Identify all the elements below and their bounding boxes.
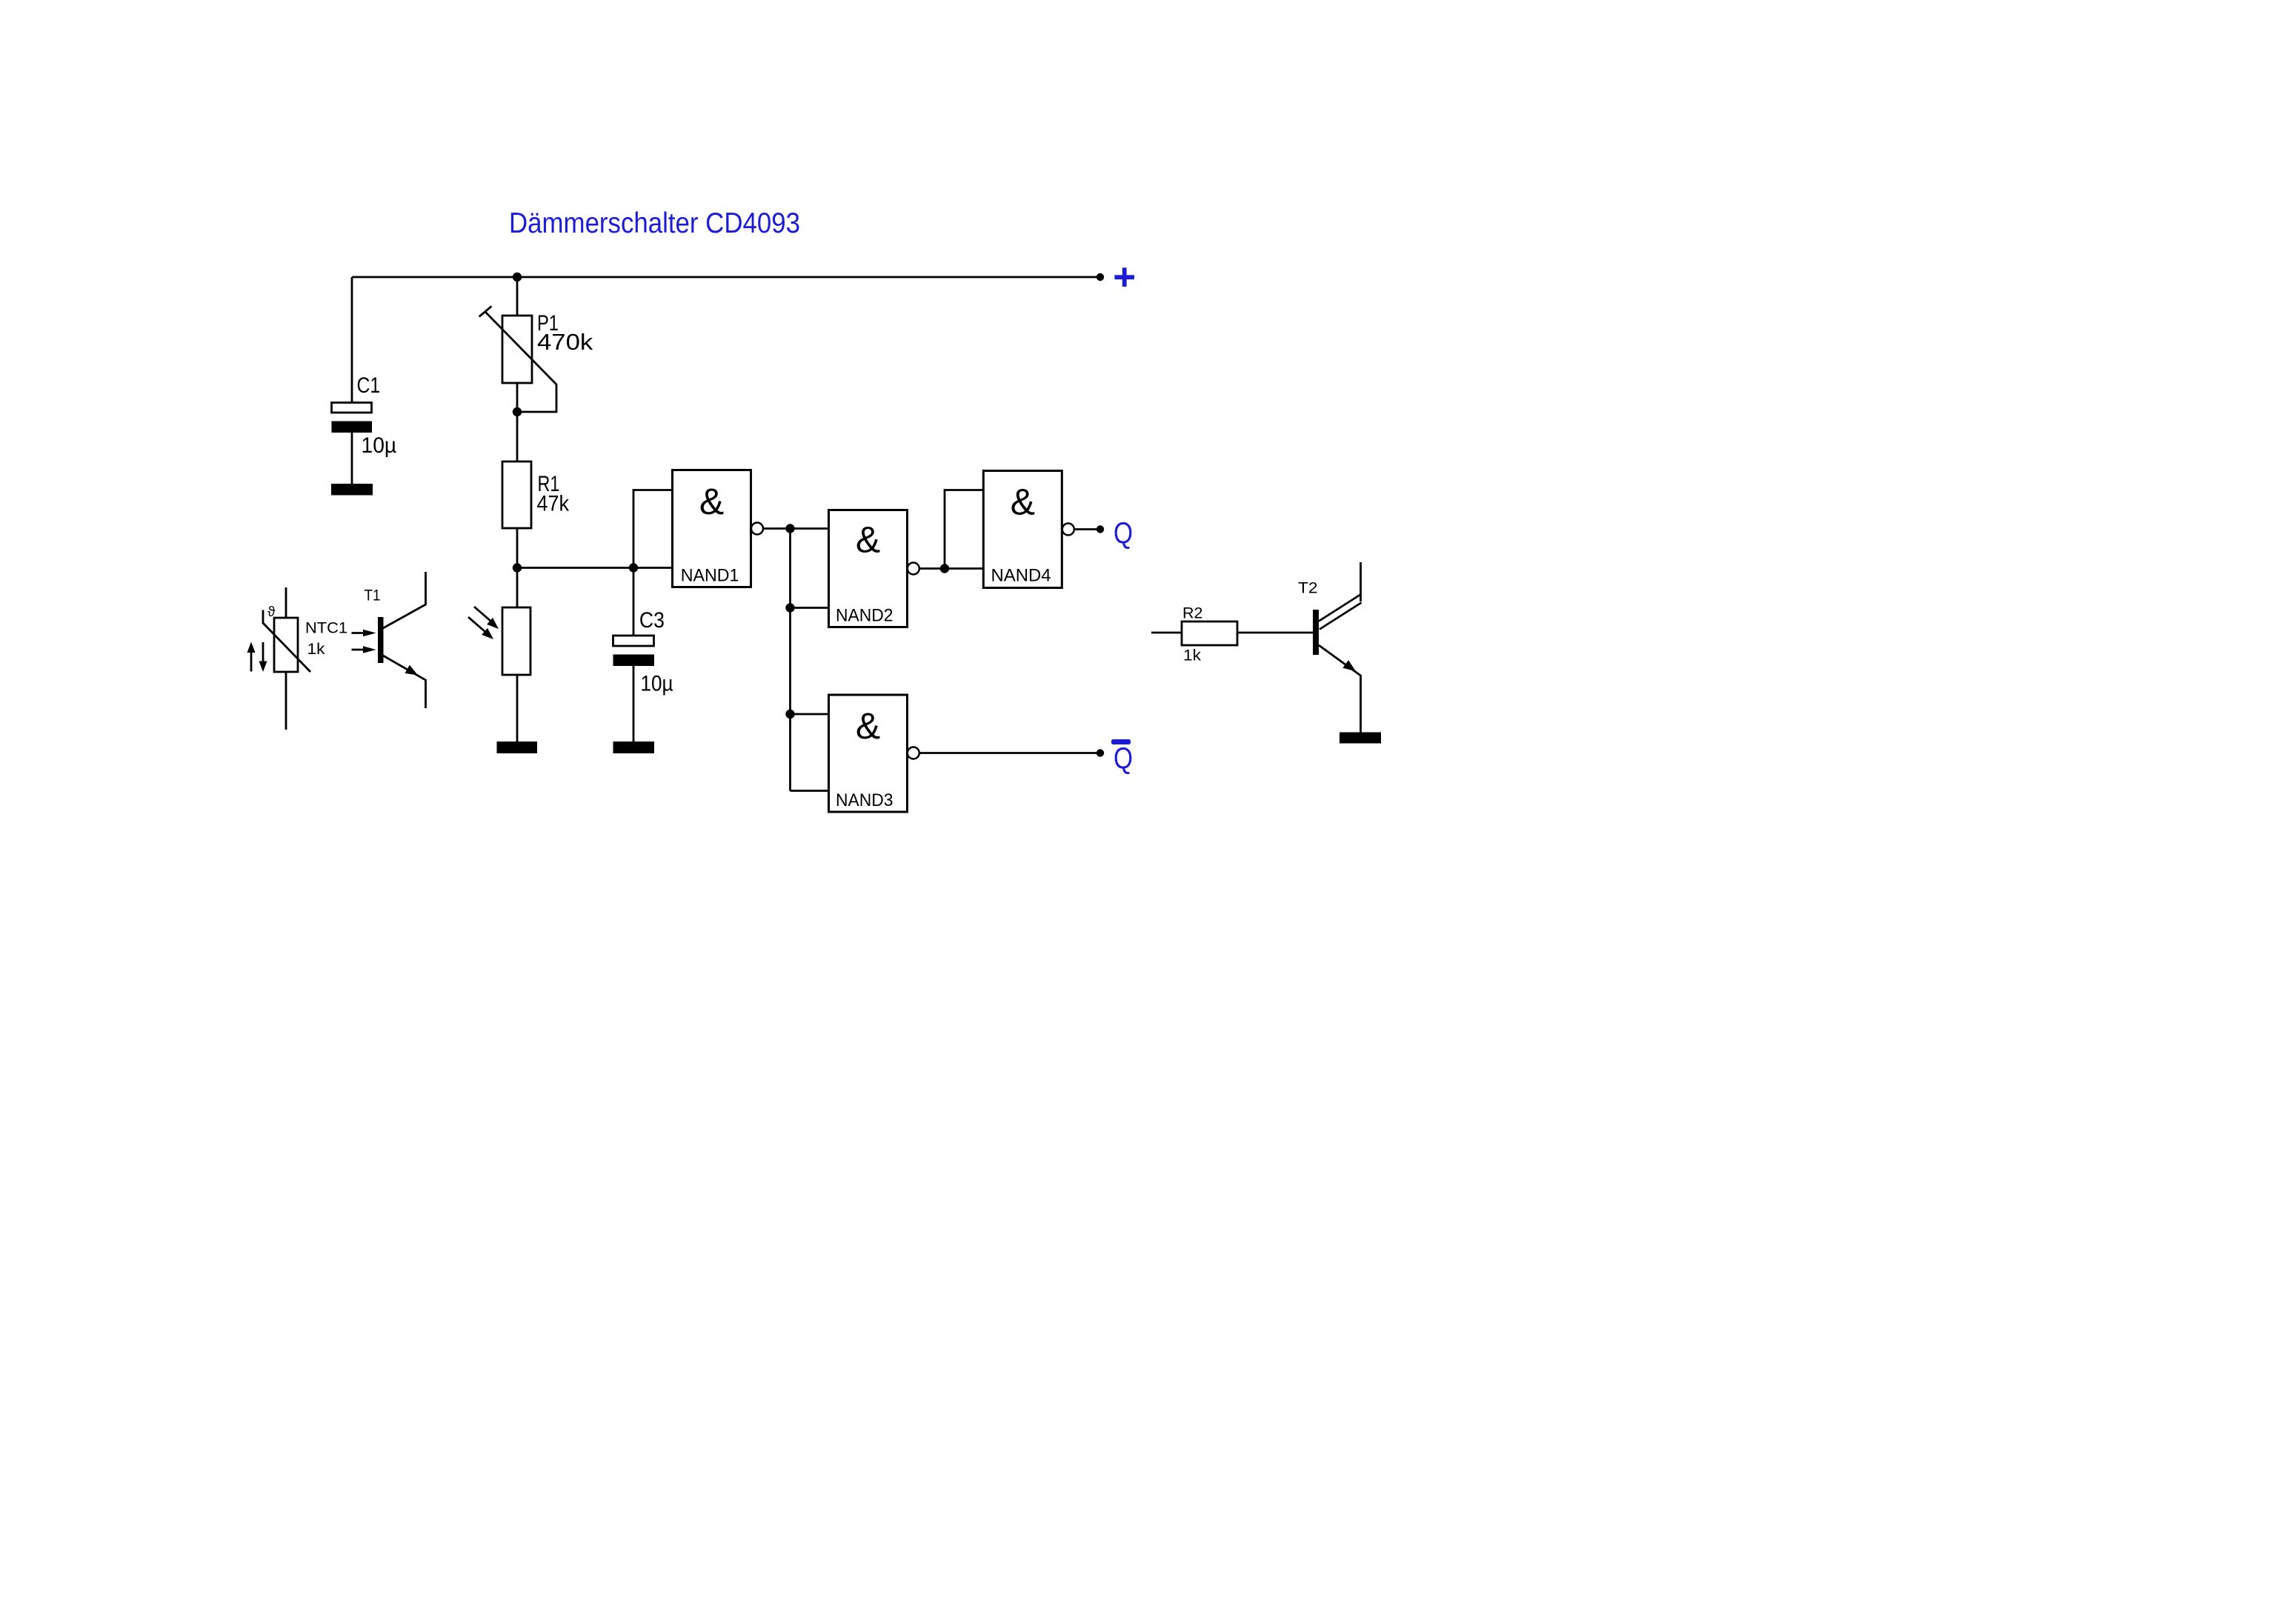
- ground C1: [331, 484, 373, 496]
- wire R2 left stub: [1151, 632, 1182, 634]
- svg-text:10µ: 10µ: [641, 672, 673, 696]
- transistor T2: [1313, 562, 1362, 733]
- wire C3 top: [633, 568, 635, 636]
- wire R2 to T2 base: [1237, 632, 1313, 634]
- svg-text:R2: R2: [1182, 604, 1203, 621]
- ground C3: [613, 741, 655, 753]
- svg-text:10µ: 10µ: [362, 433, 397, 458]
- svg-text:C1: C1: [357, 373, 381, 398]
- wire NAND4 output: [1074, 528, 1100, 530]
- svg-text:NAND2: NAND2: [836, 606, 894, 626]
- svg-text:NAND4: NAND4: [991, 566, 1051, 586]
- wire +V rail: [352, 276, 1100, 279]
- wire LDR to ground: [516, 675, 519, 742]
- potentiometer P1: [479, 306, 556, 412]
- resistor R2: [1182, 621, 1237, 645]
- svg-text:1k: 1k: [1183, 647, 1202, 664]
- svg-text:Dämmerschalter CD4093: Dämmerschalter CD4093: [509, 207, 800, 239]
- wire NAND2 output to NAND4 input B: [919, 567, 983, 570]
- wire C1 top: [351, 277, 353, 403]
- wire node to NAND1 input A: [633, 490, 673, 568]
- svg-text:&: &: [856, 705, 880, 747]
- wire C3 to ground: [633, 666, 635, 743]
- terminal + dot: [1097, 273, 1104, 281]
- wire R1 to node A: [516, 528, 519, 568]
- wire P1 top: [516, 277, 519, 316]
- thermistor NTC1: [247, 587, 311, 730]
- svg-text:&: &: [699, 481, 724, 522]
- wire to NAND3 input B: [791, 790, 829, 792]
- terminal Q dot: [1097, 525, 1104, 533]
- node NAND3 input A junction: [785, 710, 794, 719]
- svg-text:T1: T1: [365, 587, 381, 604]
- nand gate NAND3: [829, 695, 919, 812]
- capacitor C1: [332, 403, 373, 433]
- node P1 wiper junction: [513, 407, 522, 416]
- svg-text:NAND3: NAND3: [836, 790, 894, 810]
- ground T2: [1340, 733, 1381, 744]
- net label +: [1114, 267, 1134, 287]
- resistor R1: [502, 461, 531, 528]
- wire NAND2 output to NAND4 input A: [945, 490, 983, 569]
- nand gate NAND1: [673, 470, 764, 587]
- svg-text:NAND1: NAND1: [681, 565, 739, 585]
- nand gate NAND2: [829, 510, 919, 627]
- node NAND2 output junction: [940, 564, 949, 573]
- node +V junction at P1: [513, 273, 522, 281]
- ground LDR: [497, 741, 538, 753]
- svg-text:NTC1: NTC1: [305, 620, 347, 637]
- wire NAND3 output: [919, 752, 1100, 754]
- wire node A to NAND1 input B: [517, 567, 673, 569]
- nand gate NAND4: [983, 471, 1074, 588]
- photoresistor LDR: [468, 607, 530, 675]
- terminal Q-bar dot: [1097, 749, 1104, 756]
- wire bus NAND1 output down: [789, 529, 791, 791]
- svg-text:&: &: [856, 519, 880, 561]
- wire P1 bottom to R1: [516, 383, 519, 461]
- wire to NAND3 input A: [791, 713, 829, 716]
- svg-text:Q: Q: [1114, 741, 1133, 776]
- wire C1 to ground: [351, 433, 353, 484]
- svg-text:&: &: [1011, 481, 1035, 523]
- node C3 junction: [629, 563, 638, 572]
- net label Q-bar: [1111, 739, 1133, 776]
- node NAND2 input B junction: [785, 603, 794, 612]
- node NAND1 output junction: [785, 524, 794, 533]
- svg-text:C3: C3: [639, 608, 665, 633]
- svg-text:1k: 1k: [307, 641, 326, 658]
- transistor T1: [352, 572, 426, 708]
- wire NAND1 output: [764, 527, 829, 530]
- node A junction: [513, 563, 522, 572]
- svg-text:Q: Q: [1114, 516, 1133, 550]
- svg-text:470k: 470k: [537, 329, 593, 355]
- svg-text:ϑ: ϑ: [267, 604, 276, 620]
- wire LDR top: [516, 568, 519, 608]
- wire to NAND2 input B: [791, 607, 829, 609]
- svg-text:T2: T2: [1298, 580, 1318, 597]
- svg-text:47k: 47k: [537, 491, 570, 516]
- capacitor C3: [613, 636, 655, 666]
